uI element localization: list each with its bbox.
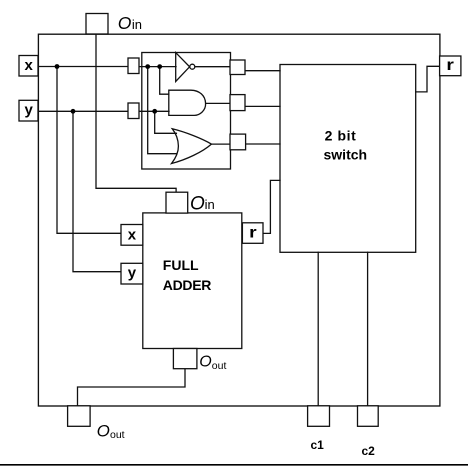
svg-text:O: O (190, 194, 205, 215)
wire 2-bit switch to c1 port (317, 252, 319, 405)
port box c1 bottom (308, 406, 330, 427)
gate output box 2 (230, 95, 245, 111)
wire node x to full adder x input (57, 67, 121, 234)
junction dot A (145, 64, 150, 69)
full adder x port box (121, 225, 143, 246)
svg-text:c2: c2 (362, 444, 376, 458)
port box y left (19, 100, 38, 121)
wire 2-bit switch to c2 port (367, 252, 369, 405)
wire AND gate output to output box 2 (206, 102, 230, 104)
AND gate (169, 90, 206, 115)
svg-text:out: out (110, 429, 125, 441)
wire output box 3 to 2-bit switch (246, 143, 280, 145)
wire y-port to gates box input 2 (38, 110, 128, 112)
2-bit switch box U2 (280, 65, 416, 253)
wire OR gate output to output box 3 (211, 143, 230, 145)
svg-text:in: in (132, 17, 142, 32)
wire gate input box 2 to AND gate (139, 110, 169, 112)
svg-text:in: in (205, 197, 215, 212)
bottom separator line (0, 464, 468, 466)
gate output box 1 (230, 60, 245, 75)
wire NOT gate output to output box 1 (195, 66, 230, 68)
NOT gate (inverter) (176, 53, 190, 82)
svg-text:x: x (25, 57, 34, 74)
junction dot on x wire (55, 64, 60, 69)
gate output box 3 (230, 134, 246, 150)
gate input box 1 (128, 58, 139, 74)
gates box U1 (142, 53, 231, 170)
svg-text:y: y (25, 101, 34, 118)
port box O_in top (86, 14, 108, 35)
svg-text:O: O (199, 354, 211, 371)
wire junction C to OR gate upper input (155, 111, 177, 133)
wire node y to full adder y input (73, 111, 121, 271)
outer system boundary box (38, 34, 440, 406)
wire full adder O_out to bottom O_out port (78, 369, 186, 406)
full adder O_in port box (166, 192, 188, 213)
wire junction A to OR gate lower input (148, 67, 176, 154)
port box O_out bottom (68, 406, 91, 427)
svg-text:ADDER: ADDER (163, 277, 211, 293)
wire top O_in port down to full adder O_in (96, 34, 176, 192)
wire 2-bit switch to r port (416, 66, 440, 92)
wire gate input box 1 to NOT gate (139, 66, 176, 68)
full adder O_out port box (173, 349, 197, 369)
OR gate (172, 129, 212, 164)
wire junction B to AND gate top input (160, 67, 169, 95)
wire x-port to gates box input 1 (38, 66, 128, 68)
port box r top right (440, 56, 461, 76)
svg-text:O: O (118, 13, 132, 33)
wire full adder r output to 2-bit switch (263, 180, 280, 233)
full adder r port box (242, 223, 263, 244)
svg-text:y: y (128, 264, 137, 281)
wire output box 1 to 2-bit switch (245, 70, 280, 72)
junction dot C (152, 109, 157, 114)
port box x left (19, 56, 38, 77)
svg-text:r: r (446, 57, 454, 74)
gate input box 2 (128, 103, 139, 119)
svg-text:O: O (97, 421, 110, 440)
port box c2 bottom (358, 406, 379, 427)
svg-text:out: out (212, 360, 227, 372)
full adder box U3 (143, 213, 242, 349)
full adder y port box (121, 263, 143, 284)
junction dot on y wire (71, 109, 76, 114)
svg-text:switch: switch (324, 147, 368, 163)
NOT gate bubble (190, 64, 195, 69)
svg-text:2 bit: 2 bit (325, 127, 357, 143)
junction dot B (157, 64, 162, 69)
svg-text:c1: c1 (311, 438, 325, 452)
svg-text:x: x (128, 226, 137, 243)
wire output box 2 to 2-bit switch (245, 105, 280, 107)
svg-text:FULL: FULL (163, 257, 199, 273)
svg-text:r: r (249, 225, 257, 242)
